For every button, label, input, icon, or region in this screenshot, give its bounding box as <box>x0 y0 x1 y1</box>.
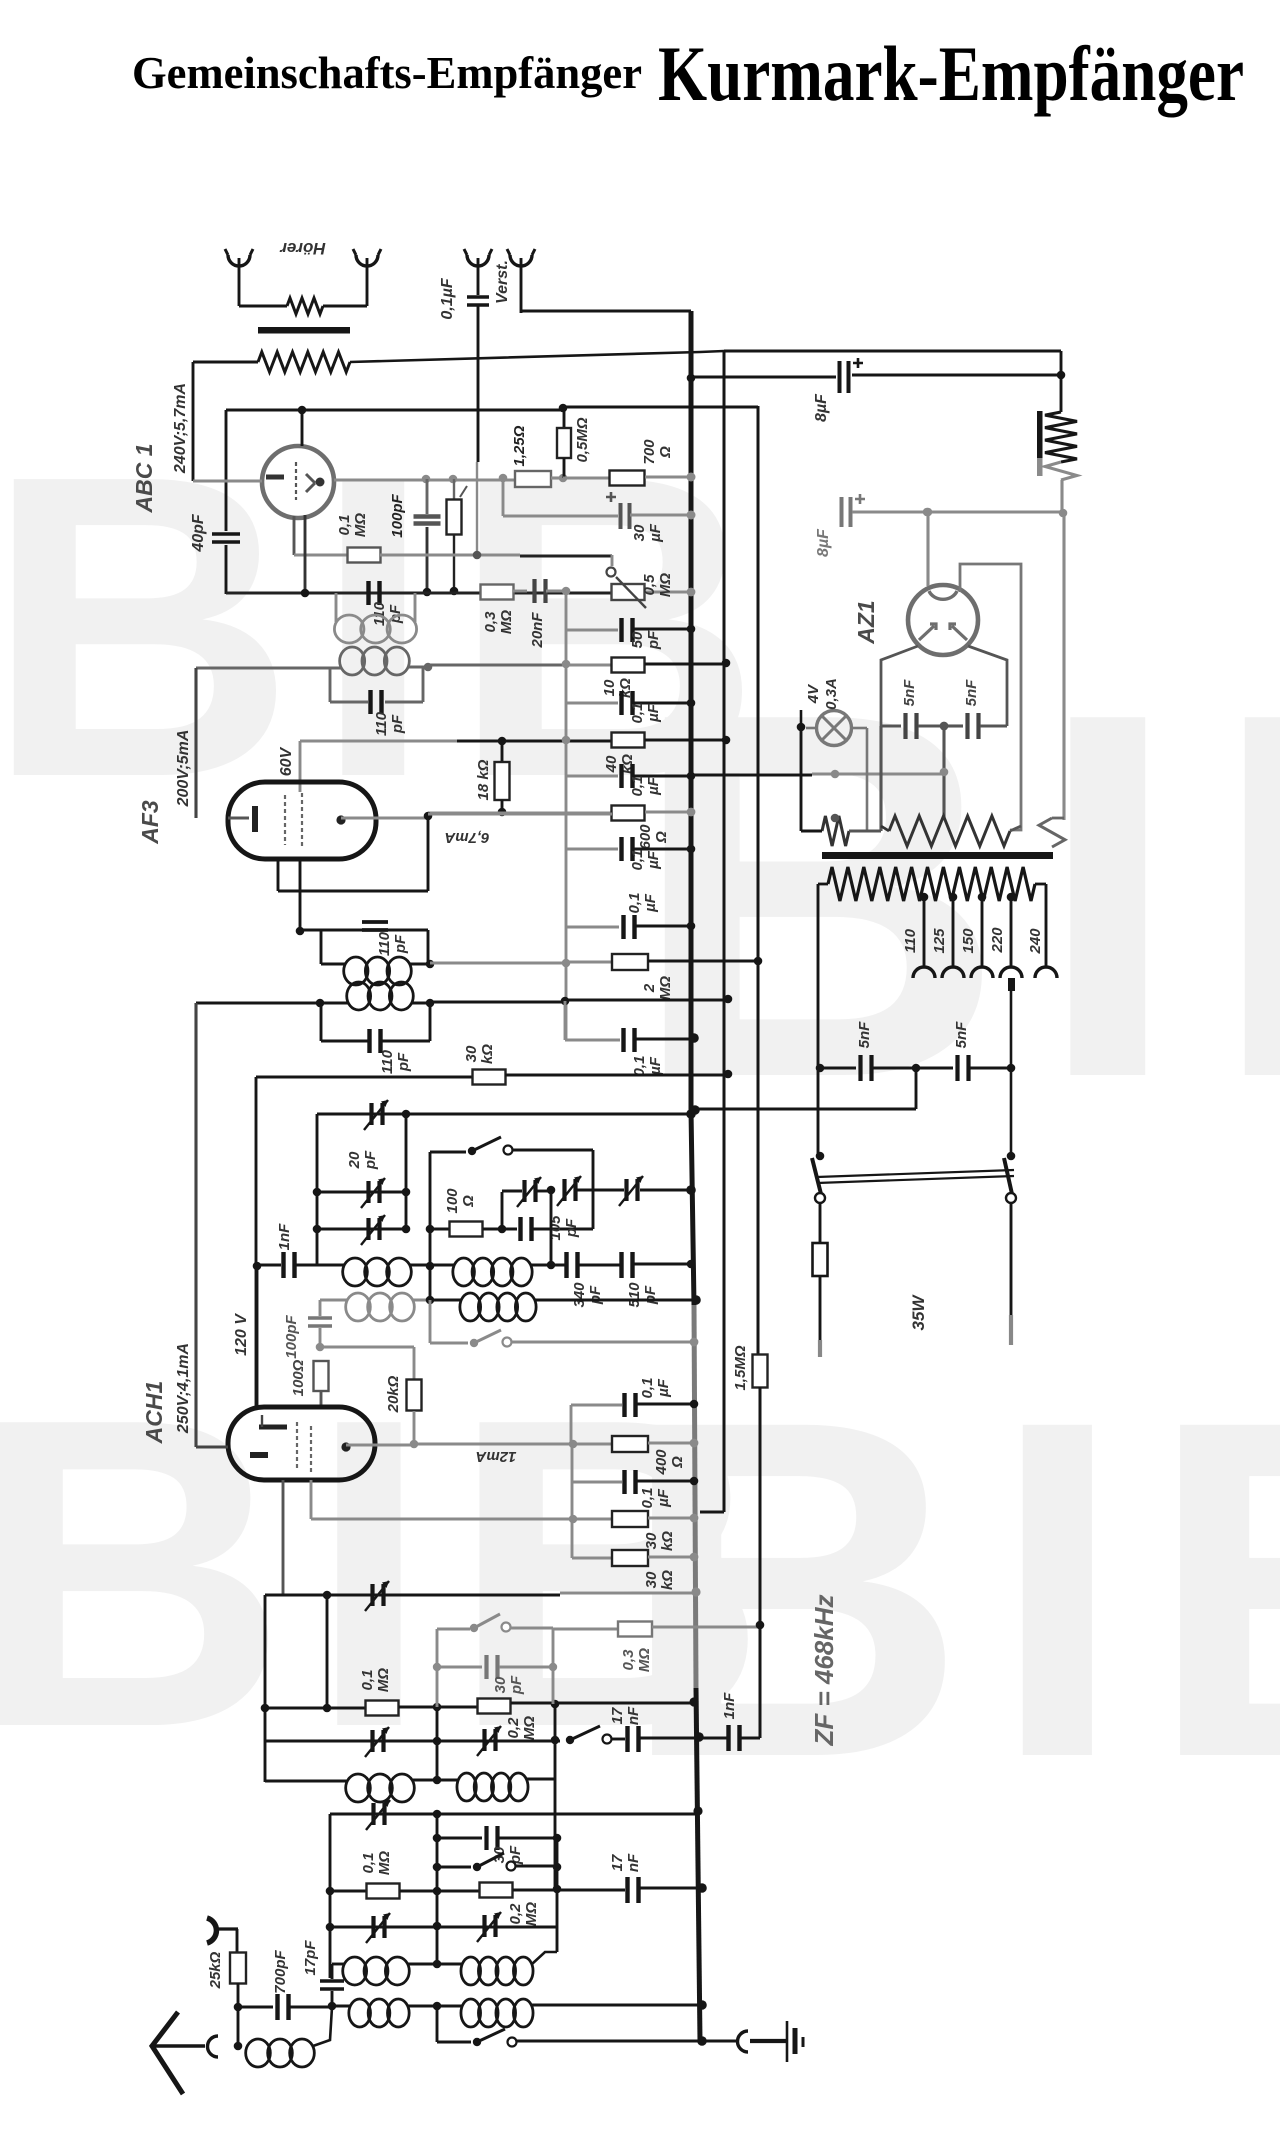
svg-text:125: 125 <box>931 928 948 954</box>
capacitor 30pF lower <box>437 1837 482 1840</box>
trimmer osc top <box>369 1103 373 1125</box>
svg-text:25kΩ: 25kΩ <box>207 1951 224 1989</box>
svg-text:1,5MΩ: 1,5MΩ <box>732 1345 749 1390</box>
svg-text:30pF: 30pF <box>492 1675 525 1695</box>
jack Hörer right <box>356 255 378 266</box>
svg-text:18 kΩ: 18 kΩ <box>475 759 492 800</box>
capacitor 110pF tank1 <box>366 581 370 605</box>
svg-text:0,1µF: 0,1µF <box>629 703 662 724</box>
row trimmers lower <box>330 1926 557 1929</box>
svg-text:Verst.: Verst. <box>494 260 511 304</box>
resistor 600 ohm <box>428 811 612 814</box>
resistor 2Mohm <box>612 954 648 970</box>
wire osc left rail <box>316 1114 319 1265</box>
capacitor 8uF lower <box>840 497 844 527</box>
svg-text:110: 110 <box>902 928 919 953</box>
wire grid top line <box>226 409 563 412</box>
wire lamp feed <box>691 774 812 777</box>
coil tank1 <box>335 593 338 622</box>
svg-text:ZF = 468kHz: ZF = 468kHz <box>809 1594 839 1746</box>
svg-text:BIB: BIB <box>620 1320 1280 1857</box>
resistor 30k AVC <box>255 1077 258 1407</box>
resistor output primary winding <box>258 352 350 372</box>
transformer core bar <box>258 327 350 334</box>
big padder row 1815 <box>330 1813 698 1816</box>
capacitor 110pF tank2 <box>329 668 332 702</box>
svg-text:0,3MΩ: 0,3MΩ <box>620 1648 653 1672</box>
svg-text:200V;5mA: 200V;5mA <box>175 730 192 808</box>
coil mixer black <box>460 1293 481 1321</box>
svg-text:0,5MΩ: 0,5MΩ <box>641 573 674 597</box>
capacitor 1nF out <box>694 1732 704 1742</box>
resistor 1,25 ohm <box>515 471 551 487</box>
resistor 100 ohm osc <box>314 1361 329 1391</box>
svg-text:17nF: 17nF <box>609 1853 642 1872</box>
resistor 0,1Mohm grid leak <box>293 516 296 555</box>
svg-text:ACH1: ACH1 <box>141 1381 167 1445</box>
wire AZ1 filament leads <box>881 646 918 726</box>
bus 2 <box>723 351 726 1512</box>
speaker field resistor <box>1037 411 1043 461</box>
svg-text:0,2MΩ: 0,2MΩ <box>507 1902 540 1926</box>
coil osc 1 <box>343 1258 368 1286</box>
svg-text:AZ1: AZ1 <box>853 600 879 644</box>
coil antenna <box>246 2039 271 2067</box>
svg-text:0,1µF: 0,1µF <box>631 1056 664 1077</box>
capacitor 30uF <box>619 503 623 529</box>
bus 3 <box>757 406 760 1355</box>
wire screen row <box>310 1480 313 1519</box>
capacitor 105pF <box>518 1217 522 1241</box>
svg-text:5nF: 5nF <box>963 679 980 707</box>
winding 4V <box>822 816 849 846</box>
switch band osc <box>430 1151 466 1154</box>
row trimmers switch 17nF <box>265 1740 560 1743</box>
svg-text:Gemeinschafts-Empfänger: Gemeinschafts-Empfänger <box>132 47 642 98</box>
resistor 18k <box>501 741 504 763</box>
capacitor 0,1uF row4 <box>564 1001 567 1040</box>
svg-text:0,2MΩ: 0,2MΩ <box>505 1716 538 1740</box>
wire to 30uF <box>502 478 505 516</box>
capacitor 20pF pair <box>317 1191 406 1194</box>
svg-text:6,7mA: 6,7mA <box>444 829 489 846</box>
rail mid lower <box>436 1814 439 1964</box>
wire anode row <box>193 479 262 482</box>
wire AZ1 anode loop <box>960 564 1021 830</box>
svg-text:0,1µF: 0,1µF <box>439 277 456 319</box>
capacitor 5nF b <box>947 724 963 727</box>
wire <box>193 361 258 364</box>
wire <box>405 1114 408 1229</box>
resistor 0,3Mohm <box>481 585 514 600</box>
switch lower <box>437 1866 471 1869</box>
coil osc 2 <box>453 1258 475 1286</box>
lamp 4V 0,3A <box>797 723 806 732</box>
resistor 20k <box>320 1346 414 1349</box>
svg-text:240V;5,7mA: 240V;5,7mA <box>172 383 189 474</box>
svg-text:1nF: 1nF <box>721 1692 738 1720</box>
capacitor 50pF <box>566 629 618 632</box>
tube AF3 <box>228 782 376 859</box>
svg-text:ABC 1: ABC 1 <box>131 443 157 513</box>
fuse <box>813 1243 828 1276</box>
capacitor 110pF tank3 <box>300 929 428 932</box>
resistor 100 ohm <box>430 1228 450 1231</box>
resistor 30k a <box>612 1511 648 1527</box>
svg-text:0,1µF: 0,1µF <box>639 1488 672 1509</box>
rails <box>436 1707 439 1781</box>
wire trimmer row 1596 <box>282 1480 285 1596</box>
wire AZ1 cathode <box>926 512 929 586</box>
svg-text:8µF: 8µF <box>815 528 832 557</box>
svg-text:35W: 35W <box>909 1294 928 1331</box>
capacitor 5nF a <box>881 724 901 727</box>
svg-text:10kΩ: 10kΩ <box>601 678 634 698</box>
switch mains left <box>816 1152 825 1161</box>
wire center tap <box>942 726 945 818</box>
svg-text:220: 220 <box>989 927 1006 954</box>
wire 250V to tube <box>196 1445 228 1448</box>
svg-text:60V: 60V <box>278 746 295 776</box>
switch link bar <box>817 1170 1014 1177</box>
coil mixer gray <box>320 1298 347 1301</box>
antenna <box>152 2012 183 2094</box>
svg-text:4V: 4V <box>805 683 822 704</box>
left rail lower <box>329 1814 332 1978</box>
svg-text:0,1µF: 0,1µF <box>629 776 662 797</box>
svg-text:30kΩ: 30kΩ <box>463 1044 496 1064</box>
capacitor 8uF upper <box>687 374 696 383</box>
svg-text:30kΩ: 30kΩ <box>643 1531 676 1551</box>
ground <box>786 2021 789 2062</box>
wire 10k row <box>428 663 566 666</box>
svg-text:110pF: 110pF <box>379 1049 412 1074</box>
wire 60V screen row <box>300 740 457 743</box>
svg-text:0,1µF: 0,1µF <box>639 1378 672 1399</box>
svg-text:12mA: 12mA <box>476 1448 517 1465</box>
wire 220 tap <box>1010 982 1013 1156</box>
svg-text:150: 150 <box>960 928 977 954</box>
row coils <box>265 1780 347 1783</box>
svg-text:8µF: 8µF <box>813 393 830 422</box>
wire osc top row <box>317 1113 691 1116</box>
row resistors lower <box>330 1890 367 1893</box>
capacitor 40pF <box>225 410 228 531</box>
tube ABC1 <box>262 446 334 518</box>
wire lamp to winding <box>800 727 803 831</box>
wire 2M row <box>430 962 566 965</box>
wire to bus <box>915 1068 918 1109</box>
coil IF secondary to AF3 <box>196 666 341 669</box>
wire 200V rail lower <box>194 1003 197 1447</box>
jack Hörer left <box>228 255 250 266</box>
capacitor 100pF osc <box>319 1300 322 1316</box>
svg-text:30kΩ: 30kΩ <box>643 1570 676 1590</box>
tube AZ1 <box>908 585 978 655</box>
capacitor 510pF <box>619 1252 623 1278</box>
jack output <box>702 2040 736 2043</box>
rail to resistor ladder <box>565 591 568 1040</box>
transformer core <box>822 852 1053 859</box>
svg-text:0,1MΩ: 0,1MΩ <box>360 1851 393 1875</box>
svg-text:Hörer: Hörer <box>279 239 326 258</box>
rail <box>571 1444 574 1558</box>
svg-text:0,1µF: 0,1µF <box>629 850 662 871</box>
resistor 0,3Mohm det <box>553 1628 617 1631</box>
winding aux <box>1039 818 1065 847</box>
svg-text:1,25Ω: 1,25Ω <box>511 425 528 466</box>
capacitor 0,1uF row2 <box>566 775 618 778</box>
capacitor 0,1uF screen <box>572 1481 622 1484</box>
rail right lower <box>556 1838 559 1952</box>
svg-text:0,3A: 0,3A <box>823 678 840 710</box>
wire <box>429 1152 432 1300</box>
capacitor 0,1uF top <box>467 255 489 266</box>
capacitor 110pF tank4 <box>320 1003 323 1041</box>
coil tank3 <box>320 930 323 964</box>
capacitor 0,1uF row1 <box>566 702 618 705</box>
capacitor 340pF <box>564 1252 568 1278</box>
capacitor 20nF <box>532 579 536 603</box>
resistor 30k b <box>572 1557 612 1560</box>
row coils lower <box>332 1963 344 1966</box>
wire 200V rail <box>194 668 197 818</box>
wire tube cathode <box>304 515 307 594</box>
switch osc gray <box>429 1300 432 1343</box>
taps <box>920 893 929 902</box>
resistor headphone <box>239 305 287 308</box>
svg-text:Kurmark-Empfänger: Kurmark-Empfänger <box>658 30 1244 117</box>
svg-text:5nF: 5nF <box>856 1021 873 1049</box>
svg-text:100Ω: 100Ω <box>290 1359 307 1396</box>
svg-text:30µF: 30µF <box>631 523 664 543</box>
row secondary coils <box>234 2003 243 2012</box>
resistor 1,5Mohm <box>753 1355 768 1388</box>
winding primary <box>828 867 1035 901</box>
wire <box>350 351 724 362</box>
wire anode AF3 <box>341 816 428 819</box>
row 0,1M 0,2M upper <box>261 1704 270 1713</box>
switch 30pF gray combo <box>436 1629 439 1707</box>
capacitor 0,1uF anode <box>570 1405 573 1444</box>
svg-text:40pF: 40pF <box>190 513 207 553</box>
capacitor 0,1uF row3 <box>566 848 618 851</box>
capacitor 17pF <box>331 1964 334 1979</box>
padder trimmers row <box>501 1192 504 1229</box>
svg-text:0,1MΩ: 0,1MΩ <box>359 1668 392 1692</box>
svg-text:20kΩ: 20kΩ <box>385 1375 402 1413</box>
winding HV <box>889 816 1010 846</box>
resistor 700 ohm <box>563 476 610 479</box>
svg-text:20pF: 20pF <box>346 1150 379 1170</box>
wire anode ACH1 <box>346 1443 414 1446</box>
wire <box>1057 371 1066 380</box>
switch mains right <box>1007 1152 1016 1161</box>
potentiometer 0,5Mohm volume <box>611 555 614 566</box>
svg-text:110pF: 110pF <box>376 931 409 956</box>
resistor 10k <box>612 658 645 673</box>
capacitor 0,1uF AF anode <box>566 926 619 929</box>
svg-text:700pF: 700pF <box>272 1949 289 1993</box>
tube ACH1 <box>228 1407 375 1480</box>
resistor 400 ohm <box>612 1436 648 1452</box>
svg-text:17nF: 17nF <box>609 1706 642 1725</box>
svg-text:100pF: 100pF <box>283 1314 300 1358</box>
svg-text:250V;4,1mA: 250V;4,1mA <box>175 1343 192 1434</box>
left rail <box>264 1595 267 1782</box>
resistor 40k <box>612 733 645 748</box>
switch ground row <box>436 2006 439 2042</box>
bus main B+ <box>691 311 694 1305</box>
svg-text:120 V: 120 V <box>233 1313 250 1356</box>
svg-text:240: 240 <box>1027 928 1044 955</box>
svg-text:0,1MΩ: 0,1MΩ <box>336 513 369 537</box>
svg-text:17pF: 17pF <box>302 1940 319 1976</box>
capacitor 5nF c <box>816 1064 825 1073</box>
wire suppressor loop <box>277 859 280 891</box>
svg-text:0,1µF: 0,1µF <box>626 893 659 914</box>
coil tank4 primary <box>196 1002 321 1005</box>
svg-text:5nF: 5nF <box>953 1021 970 1049</box>
capacitor 100pF grid <box>426 479 429 514</box>
wire osc grid <box>256 1265 259 1407</box>
svg-text:100pF: 100pF <box>389 493 406 537</box>
svg-text:1nF: 1nF <box>276 1223 293 1251</box>
svg-text:AF3: AF3 <box>137 800 163 845</box>
jack Verst <box>510 255 532 266</box>
svg-text:0,5MΩ: 0,5MΩ <box>574 417 591 462</box>
potentiometer 0,5Mohm <box>453 479 455 500</box>
resistor 0,5Mohm top <box>563 408 566 428</box>
svg-text:50pF: 50pF <box>629 630 662 650</box>
wire cathode down <box>299 859 302 931</box>
svg-text:110pF: 110pF <box>373 711 406 736</box>
svg-text:20nF: 20nF <box>529 612 546 649</box>
svg-text:5nF: 5nF <box>901 679 918 707</box>
svg-text:0,3MΩ: 0,3MΩ <box>482 610 515 634</box>
capacitor 1nF <box>253 1262 262 1271</box>
resistor 25k antenna <box>207 1918 216 1943</box>
wire <box>1060 480 1063 513</box>
wire grid line AF stage <box>226 592 612 595</box>
